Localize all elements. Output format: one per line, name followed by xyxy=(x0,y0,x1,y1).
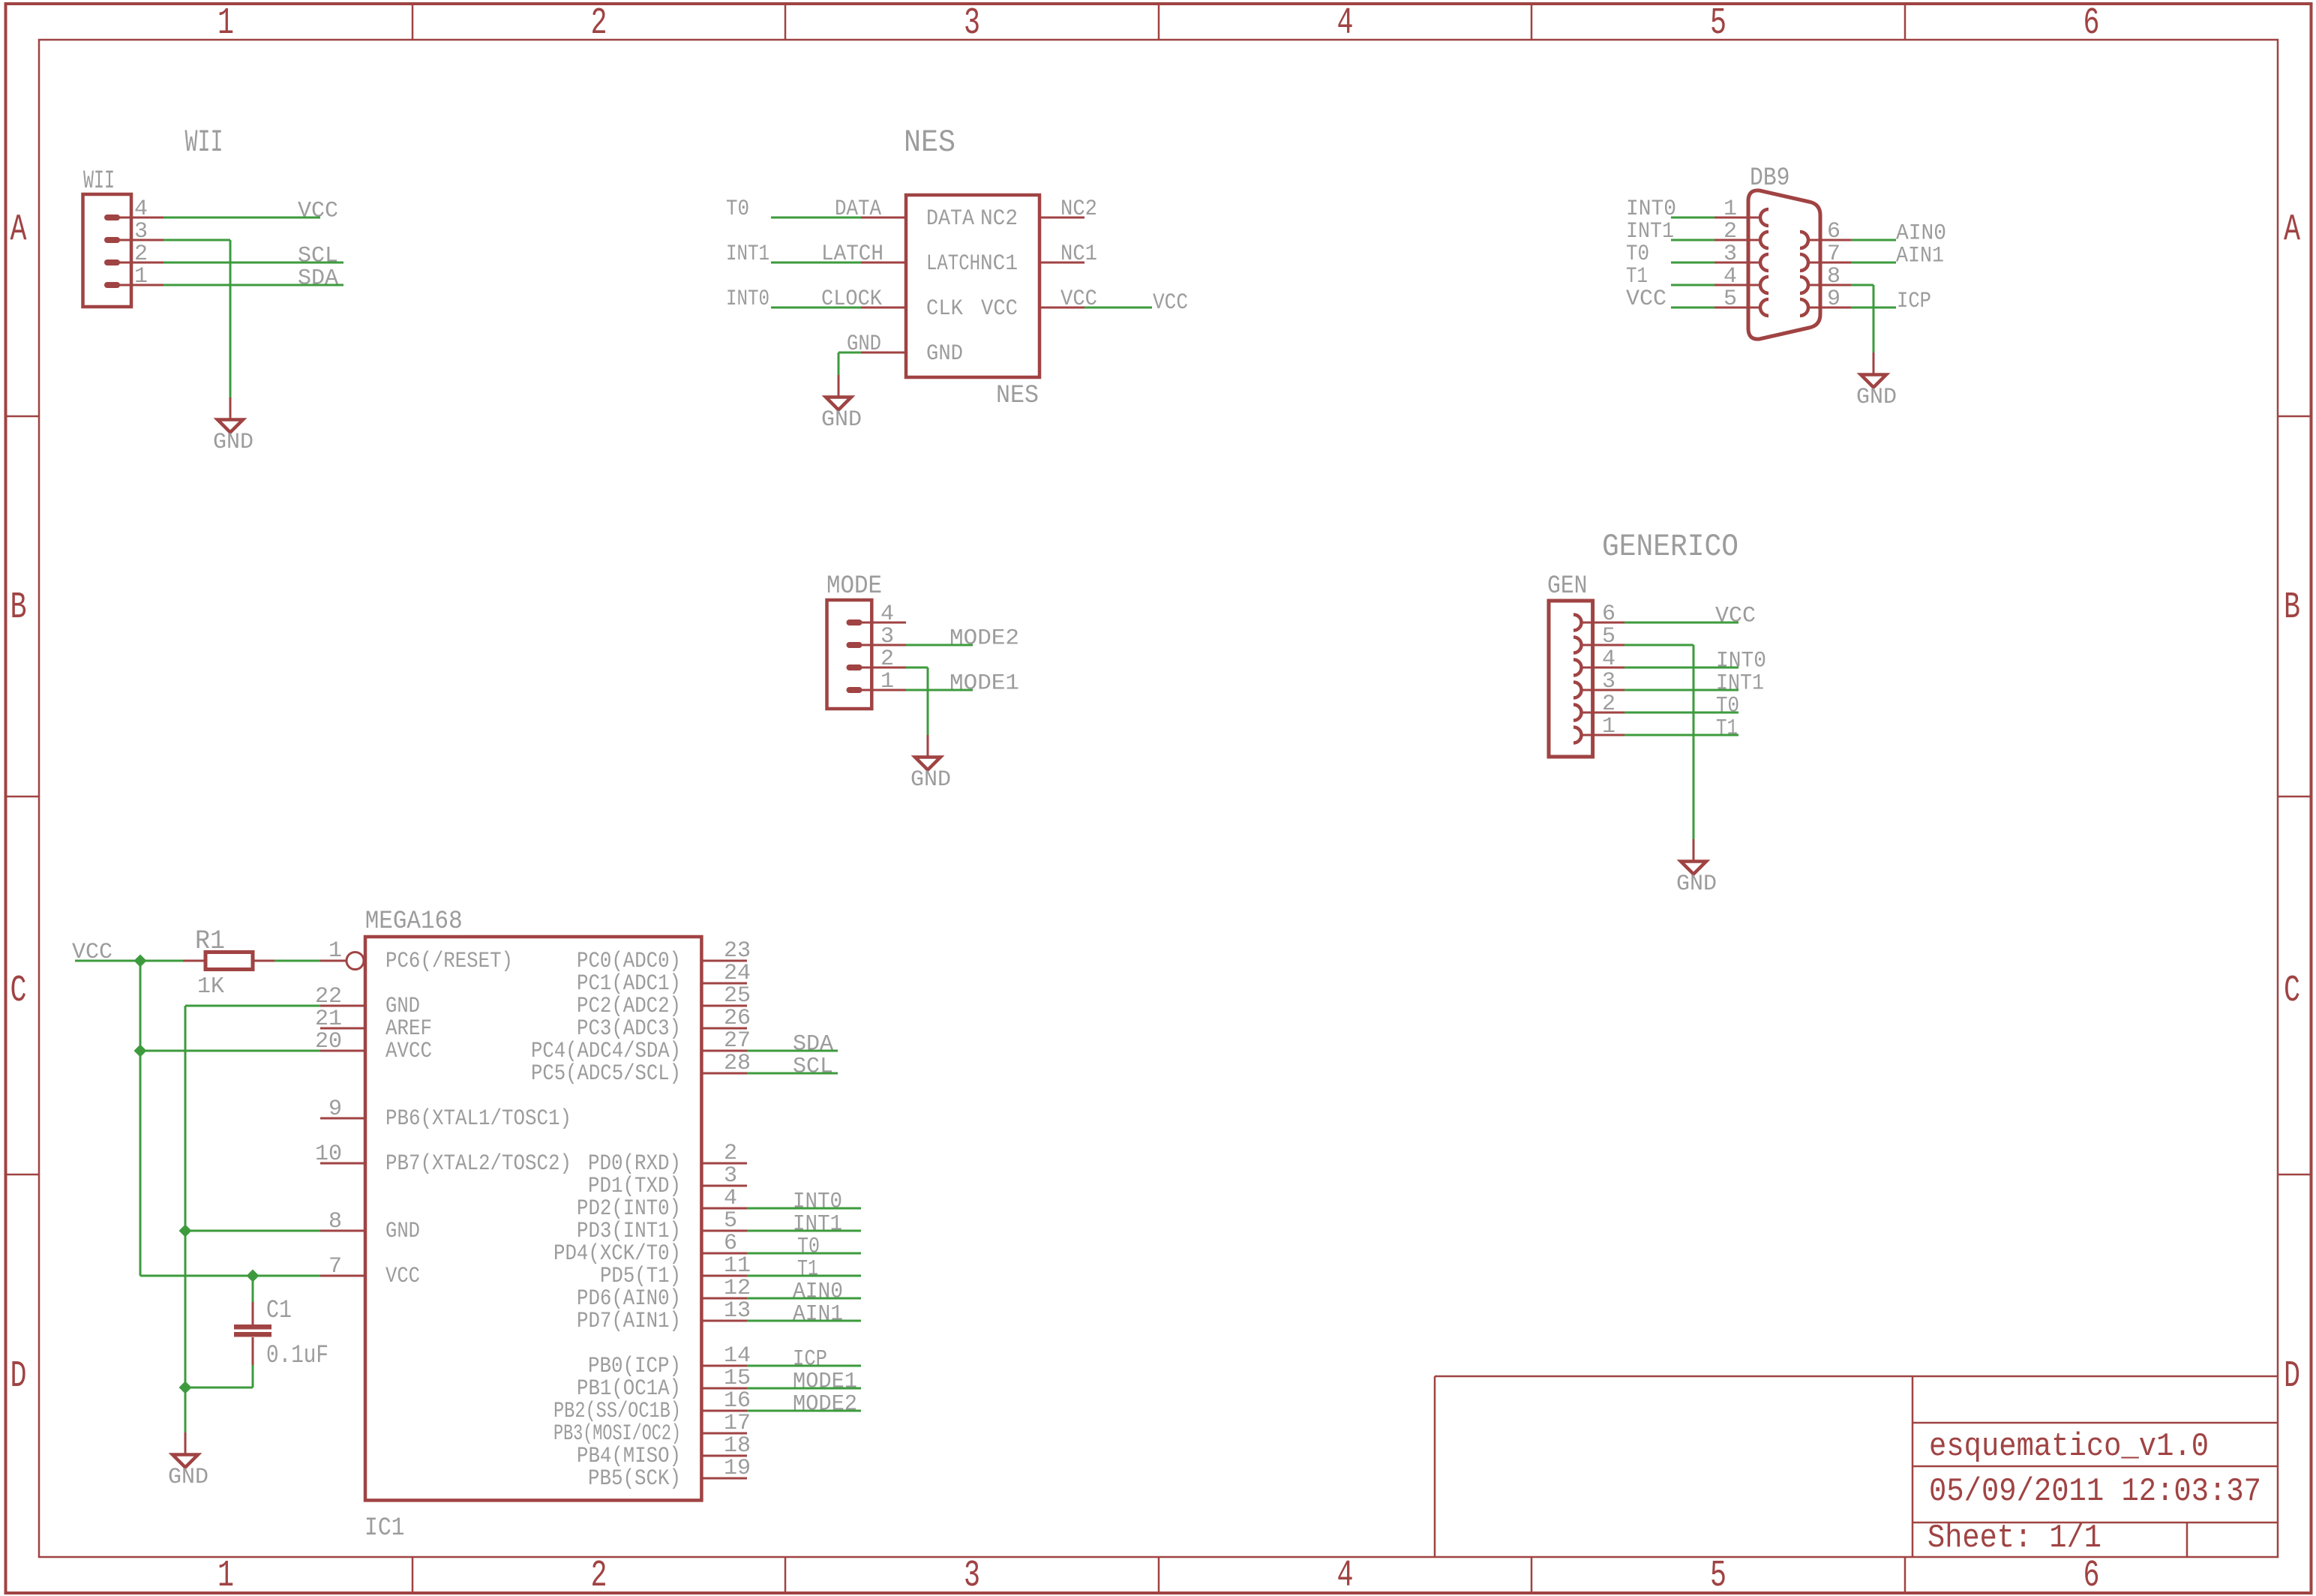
svg-text:INT0: INT0 xyxy=(793,1189,842,1215)
MODE pin 3 xyxy=(847,642,862,648)
svg-text:GND: GND xyxy=(926,341,963,367)
wire GEN pin5 down xyxy=(1693,645,1695,839)
capacitor C1 plates xyxy=(234,1324,271,1330)
DB9 pin 7 line xyxy=(1807,262,1851,264)
svg-text:6: 6 xyxy=(2083,1555,2100,1596)
svg-text:R1: R1 xyxy=(195,926,225,956)
svg-text:VCC: VCC xyxy=(1153,290,1188,316)
ground symbol below GEN xyxy=(1693,839,1695,861)
svg-text:AVCC: AVCC xyxy=(385,1039,432,1064)
wire INT0 to NES CLK xyxy=(771,307,861,309)
wire T0 to DB9 pin3 xyxy=(1671,262,1714,264)
svg-text:3: 3 xyxy=(134,219,148,244)
MEGA168 pin 18 PB4(MISO) xyxy=(702,1455,747,1457)
GEN pin 1 line xyxy=(1581,734,1624,736)
GEN pin 6 line xyxy=(1581,622,1624,624)
wire INT0 from MEGA168 pin 4 xyxy=(747,1207,861,1210)
svg-text:A: A xyxy=(10,209,27,252)
svg-text:IC1: IC1 xyxy=(364,1514,405,1543)
svg-text:MODE2: MODE2 xyxy=(949,626,1019,652)
svg-text:19: 19 xyxy=(724,1456,751,1481)
block NES body xyxy=(906,195,1039,377)
wire MODE2 from MEGA168 pin 16 xyxy=(747,1410,861,1412)
wire AIN0 from DB9 pin6 xyxy=(1851,239,1896,241)
svg-text:T1: T1 xyxy=(1626,264,1648,289)
wire T1 from GEN pin1 xyxy=(1624,734,1738,736)
svg-text:PD7(AIN1): PD7(AIN1) xyxy=(577,1309,681,1334)
wire C1 bottom xyxy=(252,1365,254,1387)
GEN pin 2 line xyxy=(1581,712,1624,714)
svg-text:3: 3 xyxy=(1723,241,1737,267)
wire INT1 from MEGA168 pin 5 xyxy=(747,1230,861,1232)
svg-text:6: 6 xyxy=(2083,2,2100,45)
svg-text:CLK: CLK xyxy=(926,296,963,322)
svg-text:PB1(OC1A): PB1(OC1A) xyxy=(577,1376,681,1402)
svg-text:T0: T0 xyxy=(1626,241,1649,267)
svg-text:INT1: INT1 xyxy=(793,1212,842,1237)
wire VCC rail down xyxy=(139,961,142,1276)
svg-text:ICP: ICP xyxy=(1897,289,1931,314)
svg-text:9: 9 xyxy=(1827,286,1840,312)
svg-text:2: 2 xyxy=(1602,691,1615,717)
svg-text:MODE1: MODE1 xyxy=(949,671,1019,697)
MEGA168 pin 2 PD0(RXD) xyxy=(702,1162,747,1165)
svg-text:0.1uF: 0.1uF xyxy=(266,1342,328,1370)
svg-text:C: C xyxy=(10,970,27,1012)
svg-text:PB5(SCK): PB5(SCK) xyxy=(588,1466,681,1492)
svg-text:NES: NES xyxy=(904,124,955,160)
svg-text:NC2: NC2 xyxy=(980,206,1018,232)
svg-text:Sheet: 1/1: Sheet: 1/1 xyxy=(1927,1519,2101,1557)
NES pin DATA line xyxy=(861,217,906,219)
svg-text:4: 4 xyxy=(134,196,148,222)
junction VCC/C1 xyxy=(247,1270,259,1282)
svg-text:GND: GND xyxy=(821,407,862,433)
MEGA168 pin 28 PC5(ADC5/SCL) xyxy=(702,1072,747,1075)
svg-text:PB6(XTAL1/TOSC1): PB6(XTAL1/TOSC1) xyxy=(385,1106,571,1132)
svg-text:11: 11 xyxy=(724,1253,751,1279)
MEGA168 pin 26 PC3(ADC3) xyxy=(702,1027,747,1030)
MEGA168 pin 22 GND xyxy=(320,1005,365,1007)
wire MODE1 from MEGA168 pin 15 xyxy=(747,1387,861,1390)
svg-text:MEGA168: MEGA168 xyxy=(365,907,463,936)
connector MODE body xyxy=(827,600,872,709)
wire R1 to MEGA168 pin1 xyxy=(274,960,320,962)
MEGA168 pin 21 AREF xyxy=(320,1027,365,1030)
svg-text:CLOCK: CLOCK xyxy=(821,286,882,312)
frame row ticks left xyxy=(6,415,40,418)
svg-text:17: 17 xyxy=(724,1411,751,1436)
DB9 pin 5 line xyxy=(1714,307,1761,309)
wire from MODE pin2 to GND xyxy=(906,667,928,669)
svg-text:1: 1 xyxy=(880,669,894,694)
wire ICP from MEGA168 pin 14 xyxy=(747,1365,861,1367)
wire SCL from WII pin 2 xyxy=(163,262,343,264)
svg-text:8: 8 xyxy=(1827,264,1840,289)
svg-text:C: C xyxy=(2284,970,2300,1012)
svg-text:5: 5 xyxy=(1710,1555,1726,1596)
frame row ticks right xyxy=(2278,415,2311,418)
MEGA168 pin 24 PC1(ADC1) xyxy=(702,982,747,985)
wire INT0 to DB9 pin1 xyxy=(1671,217,1714,219)
wire VCC to DB9 pin5 xyxy=(1671,307,1714,309)
svg-text:GND: GND xyxy=(213,430,253,455)
svg-text:AIN0: AIN0 xyxy=(1896,221,1946,247)
MEGA168 pin 10 PB7(XTAL2/TOSC2) xyxy=(320,1162,365,1165)
wire AIN1 from MEGA168 pin 13 xyxy=(747,1320,861,1322)
wire AIN0 from MEGA168 pin 12 xyxy=(747,1297,861,1300)
svg-text:GENERICO: GENERICO xyxy=(1602,529,1738,565)
svg-text:2: 2 xyxy=(591,1555,607,1596)
wire VCC from NES xyxy=(1084,307,1152,309)
svg-text:2: 2 xyxy=(591,2,607,45)
svg-text:GND: GND xyxy=(1676,871,1717,897)
title block outline xyxy=(1435,1375,2278,1378)
svg-text:PD1(TXD): PD1(TXD) xyxy=(588,1174,681,1199)
svg-text:NC2: NC2 xyxy=(1060,196,1097,222)
svg-text:SCL: SCL xyxy=(298,244,338,269)
svg-text:WII: WII xyxy=(83,167,115,196)
svg-text:1: 1 xyxy=(217,1555,234,1596)
GEN contact arc pin 6 xyxy=(1573,615,1582,631)
MEGA168 pin 3 PD1(TXD) xyxy=(702,1185,747,1187)
ground symbol below DB9 xyxy=(1873,352,1875,374)
GEN pin 3 line xyxy=(1581,689,1624,691)
junction AVCC xyxy=(134,1045,147,1057)
connector WII pin 4 xyxy=(104,214,120,220)
MEGA168 pin 8 GND xyxy=(320,1230,365,1232)
svg-text:PC6(/RESET): PC6(/RESET) xyxy=(385,949,513,974)
wire INT0 from GEN pin4 xyxy=(1624,667,1738,669)
wire T0 from GEN pin2 xyxy=(1624,712,1738,714)
svg-text:D: D xyxy=(2284,1355,2300,1398)
wire INT1 to NES LATCH xyxy=(771,262,861,264)
svg-text:NC1: NC1 xyxy=(1060,241,1097,267)
svg-text:PB2(SS/OC1B): PB2(SS/OC1B) xyxy=(553,1399,681,1424)
GEN pin 4 line xyxy=(1581,667,1624,669)
svg-text:PC0(ADC0): PC0(ADC0) xyxy=(577,949,681,974)
svg-text:24: 24 xyxy=(724,961,751,986)
MEGA168 pin 17 PB3(MOSI/OC2) xyxy=(702,1432,747,1435)
svg-text:VCC: VCC xyxy=(385,1264,420,1289)
svg-text:VCC: VCC xyxy=(1626,286,1666,312)
svg-text:DB9: DB9 xyxy=(1750,164,1790,193)
MEGA168 pin 20 AVCC xyxy=(320,1050,365,1052)
svg-text:GND: GND xyxy=(385,994,420,1019)
wire vertical WII pin3 down xyxy=(229,240,232,397)
connector WII pin 2 xyxy=(104,259,120,265)
svg-text:NC1: NC1 xyxy=(980,251,1018,277)
wire from DB9 pin8 to GND xyxy=(1851,284,1873,286)
NES pin LATCH line xyxy=(861,262,906,264)
svg-text:14: 14 xyxy=(724,1343,751,1369)
wire GND to MEGA168 pin22 xyxy=(185,1005,320,1007)
svg-text:1K: 1K xyxy=(197,973,224,1000)
wire T0 to NES DATA xyxy=(771,217,861,219)
svg-text:T0: T0 xyxy=(797,1234,820,1260)
wire C1 to GND rail xyxy=(185,1387,253,1389)
svg-text:INT1: INT1 xyxy=(726,241,769,267)
DB9 pin 8 line xyxy=(1807,284,1851,286)
MEGA168 pin 15 PB1(OC1A) xyxy=(702,1387,747,1390)
svg-text:PD5(T1): PD5(T1) xyxy=(600,1264,681,1289)
DB9 contact arc pin 8 xyxy=(1800,277,1808,293)
svg-text:B: B xyxy=(2284,586,2300,629)
ground symbol below MODE xyxy=(927,735,929,757)
svg-text:4: 4 xyxy=(1602,646,1615,672)
svg-text:5: 5 xyxy=(724,1208,737,1234)
DB9 pin 6 line xyxy=(1807,239,1851,241)
svg-text:D: D xyxy=(10,1355,27,1398)
svg-text:1: 1 xyxy=(1602,714,1615,739)
DB9 pin 1 line xyxy=(1714,217,1761,219)
wire AIN1 from DB9 pin7 xyxy=(1851,262,1896,264)
svg-text:VCC: VCC xyxy=(1715,604,1756,629)
svg-text:AIN0: AIN0 xyxy=(793,1279,843,1305)
wire VCC from GEN pin6 xyxy=(1624,622,1738,624)
svg-text:3: 3 xyxy=(880,624,894,649)
svg-text:9: 9 xyxy=(328,1096,342,1122)
svg-text:05/09/2011 12:03:37: 05/09/2011 12:03:37 xyxy=(1929,1473,2261,1510)
MEGA168 pin 11 PD5(T1) xyxy=(702,1275,747,1277)
wire T0 from MEGA168 pin 6 xyxy=(747,1252,861,1255)
wire INT1 to DB9 pin2 xyxy=(1671,239,1714,241)
ground symbol below WII xyxy=(229,397,232,419)
svg-text:VCC: VCC xyxy=(298,199,338,224)
svg-text:LATCH: LATCH xyxy=(821,241,883,267)
junction VCC/R1 xyxy=(134,955,147,967)
MEGA168 pin 4 PD2(INT0) xyxy=(702,1207,747,1210)
svg-text:1: 1 xyxy=(217,2,234,45)
MEGA168 pin 5 PD3(INT1) xyxy=(702,1230,747,1232)
MODE pin 1 xyxy=(847,687,862,693)
svg-text:25: 25 xyxy=(724,983,751,1009)
connector WII body xyxy=(83,194,132,307)
connector WII pin 3 xyxy=(104,237,120,243)
svg-text:18: 18 xyxy=(724,1433,751,1459)
GEN contact arc pin 4 xyxy=(1573,660,1582,676)
MEGA168 pin 7 VCC xyxy=(320,1275,365,1277)
ground symbol bottom left xyxy=(184,1432,187,1454)
resistor R1 xyxy=(205,952,253,970)
svg-text:AIN1: AIN1 xyxy=(1896,244,1944,269)
MEGA168 pin 13 PD7(AIN1) xyxy=(702,1320,747,1322)
svg-text:3: 3 xyxy=(1602,669,1615,694)
NES pin NC1 line xyxy=(1039,262,1084,264)
GEN pin 5 line xyxy=(1581,644,1624,646)
NES pin VCC line xyxy=(1039,307,1084,309)
svg-text:T0: T0 xyxy=(1716,694,1739,719)
svg-text:PC5(ADC5/SCL): PC5(ADC5/SCL) xyxy=(531,1061,681,1087)
junction GND rail/C1 xyxy=(179,1381,192,1394)
capacitor C1 bottom pin xyxy=(252,1337,254,1365)
svg-text:1: 1 xyxy=(328,938,342,964)
junction GND pin8 xyxy=(179,1225,192,1237)
svg-text:PB0(ICP): PB0(ICP) xyxy=(588,1354,681,1379)
MEGA168 pin 12 PD6(AIN0) xyxy=(702,1297,747,1300)
svg-text:6: 6 xyxy=(1602,601,1615,627)
svg-text:B: B xyxy=(10,586,27,629)
MEGA168 pin 14 PB0(ICP) xyxy=(702,1365,747,1367)
GEN contact arc pin 2 xyxy=(1573,705,1582,721)
wire from GEN pin5 to GND xyxy=(1624,644,1693,646)
frame column ticks bottom xyxy=(412,1557,414,1593)
DB9 contact arc pin 4 xyxy=(1760,277,1768,293)
svg-text:PC3(ADC3): PC3(ADC3) xyxy=(577,1016,681,1042)
svg-text:SCL: SCL xyxy=(793,1054,833,1080)
svg-text:PC4(ADC4/SDA): PC4(ADC4/SDA) xyxy=(531,1039,681,1064)
svg-text:GND: GND xyxy=(385,1219,420,1244)
IC MEGA168 body xyxy=(365,937,701,1500)
wire VCC from WII pin 4 xyxy=(163,217,320,219)
NES pin CLK line xyxy=(861,307,906,309)
MEGA168 pin 27 PC4(ADC4/SDA) xyxy=(702,1050,747,1052)
svg-text:26: 26 xyxy=(724,1006,751,1031)
svg-text:INT1: INT1 xyxy=(1716,671,1764,697)
svg-text:LATCH: LATCH xyxy=(926,251,980,277)
svg-text:GND: GND xyxy=(910,767,951,793)
resistor R1 left pin xyxy=(183,960,205,962)
wire MODE1 from MODE pin1 xyxy=(906,689,973,691)
NES pin GND line xyxy=(861,352,906,354)
svg-text:21: 21 xyxy=(315,1006,342,1032)
svg-text:5: 5 xyxy=(1723,286,1737,312)
svg-text:4: 4 xyxy=(1337,1555,1354,1596)
DB9 pin 3 line xyxy=(1714,262,1761,264)
svg-text:SDA: SDA xyxy=(793,1032,833,1057)
svg-text:VCC: VCC xyxy=(1060,286,1097,312)
svg-text:MODE2: MODE2 xyxy=(793,1392,857,1417)
DB9 pin 9 line xyxy=(1807,307,1851,309)
svg-text:12: 12 xyxy=(724,1276,751,1301)
svg-text:2: 2 xyxy=(724,1141,737,1166)
svg-text:WII: WII xyxy=(185,124,223,160)
svg-text:PD4(XCK/T0): PD4(XCK/T0) xyxy=(553,1241,681,1267)
NES pin NC2 line xyxy=(1039,217,1084,219)
MEGA168 pin 19 PB5(SCK) xyxy=(702,1477,747,1480)
DB9 contact arc pin 3 xyxy=(1760,254,1768,271)
svg-text:2: 2 xyxy=(880,646,894,672)
svg-text:4: 4 xyxy=(880,601,894,627)
resistor R1 right pin xyxy=(252,960,274,962)
wire T1 to DB9 pin4 xyxy=(1671,284,1714,286)
svg-text:PC2(ADC2): PC2(ADC2) xyxy=(577,994,681,1019)
wire NES GND down xyxy=(838,352,840,375)
svg-text:T1: T1 xyxy=(797,1257,818,1282)
DB9 pin 2 line xyxy=(1714,239,1761,241)
wire from WII pin 3 to GND xyxy=(163,239,230,241)
svg-text:MODE: MODE xyxy=(826,572,882,601)
MEGA168 pin 23 PC0(ADC0) xyxy=(702,960,747,962)
svg-text:16: 16 xyxy=(724,1388,751,1414)
wire ICP from DB9 pin9 xyxy=(1851,307,1896,309)
wire MODE2 from MODE pin3 xyxy=(906,644,973,646)
MEGA168 pin 6 PD4(XCK/T0) xyxy=(702,1252,747,1255)
svg-text:3: 3 xyxy=(724,1163,737,1189)
wire SDA from WII pin 1 xyxy=(163,284,343,286)
GEN contact arc pin 1 xyxy=(1573,727,1582,743)
svg-text:A: A xyxy=(2284,209,2300,252)
wire NES GND pin xyxy=(838,352,861,354)
svg-text:ICP: ICP xyxy=(793,1347,827,1372)
DB9 contact arc pin 2 xyxy=(1760,232,1768,248)
svg-text:6: 6 xyxy=(1827,219,1840,244)
capacitor C1 top pin xyxy=(252,1302,254,1324)
svg-text:7: 7 xyxy=(1827,241,1840,267)
wire MODE pin2 down xyxy=(927,667,929,735)
DB9 pin 4 line xyxy=(1714,284,1761,286)
wire INT1 from GEN pin3 xyxy=(1624,689,1738,691)
wire DB9 pin8 down xyxy=(1873,285,1875,352)
svg-text:MODE1: MODE1 xyxy=(793,1369,857,1395)
svg-text:INT1: INT1 xyxy=(1626,219,1674,244)
svg-text:PD3(INT1): PD3(INT1) xyxy=(577,1219,681,1244)
MEGA168 pin 16 PB2(SS/OC1B) xyxy=(702,1410,747,1412)
connector WII pin 1 xyxy=(104,282,120,288)
wire GND rail down xyxy=(184,1006,187,1432)
svg-text:3: 3 xyxy=(964,1555,980,1596)
ground symbol below NES xyxy=(838,375,840,397)
wire T1 from MEGA168 pin 11 xyxy=(747,1275,861,1277)
svg-text:6: 6 xyxy=(724,1231,737,1256)
wire SCL from MEGA168 pin 28 xyxy=(747,1072,838,1075)
svg-text:DATA: DATA xyxy=(835,196,881,222)
svg-text:1: 1 xyxy=(1723,196,1737,222)
wire AVCC to MEGA168 pin20 xyxy=(140,1050,320,1052)
svg-text:T1: T1 xyxy=(1716,716,1738,742)
wire GND to MEGA168 pin8 xyxy=(185,1230,320,1232)
svg-text:GEN: GEN xyxy=(1547,572,1588,601)
svg-text:esquematico_v1.0: esquematico_v1.0 xyxy=(1929,1428,2209,1465)
svg-text:1: 1 xyxy=(134,264,148,289)
svg-text:27: 27 xyxy=(724,1028,751,1054)
svg-text:VCC: VCC xyxy=(981,296,1018,322)
svg-text:10: 10 xyxy=(315,1141,342,1167)
svg-text:PD6(AIN0): PD6(AIN0) xyxy=(577,1286,681,1312)
wire SDA from MEGA168 pin 27 xyxy=(747,1050,838,1052)
svg-text:PD0(RXD): PD0(RXD) xyxy=(588,1151,681,1177)
MEGA168 pin 25 PC2(ADC2) xyxy=(702,1005,747,1007)
wire C1 top xyxy=(252,1276,254,1302)
svg-text:7: 7 xyxy=(328,1254,342,1279)
DB9 contact arc pin 5 xyxy=(1760,299,1768,316)
DB9 contact arc pin 9 xyxy=(1800,299,1808,316)
connector GEN body xyxy=(1549,601,1593,757)
svg-text:INT0: INT0 xyxy=(1716,649,1766,674)
svg-text:8: 8 xyxy=(328,1209,342,1234)
GEN contact arc pin 5 xyxy=(1573,637,1582,653)
svg-text:5: 5 xyxy=(1602,624,1615,649)
svg-text:SDA: SDA xyxy=(298,266,338,292)
svg-text:28: 28 xyxy=(724,1051,751,1076)
svg-text:23: 23 xyxy=(724,938,751,964)
svg-text:15: 15 xyxy=(724,1366,751,1391)
svg-text:T0: T0 xyxy=(726,196,749,222)
svg-text:4: 4 xyxy=(1723,264,1737,289)
MODE pin 4 xyxy=(847,619,862,625)
svg-text:PB4(MISO): PB4(MISO) xyxy=(577,1444,681,1469)
svg-text:DATA: DATA xyxy=(926,206,974,232)
connector DB9 body xyxy=(1748,190,1820,339)
MODE pin 2 xyxy=(847,664,862,670)
svg-text:INT0: INT0 xyxy=(726,286,769,312)
svg-text:GND: GND xyxy=(1856,385,1897,410)
svg-text:13: 13 xyxy=(724,1298,751,1324)
svg-text:3: 3 xyxy=(964,2,980,45)
svg-text:C1: C1 xyxy=(266,1297,292,1325)
svg-text:PC1(ADC1): PC1(ADC1) xyxy=(577,971,681,997)
GEN contact arc pin 3 xyxy=(1573,682,1582,698)
